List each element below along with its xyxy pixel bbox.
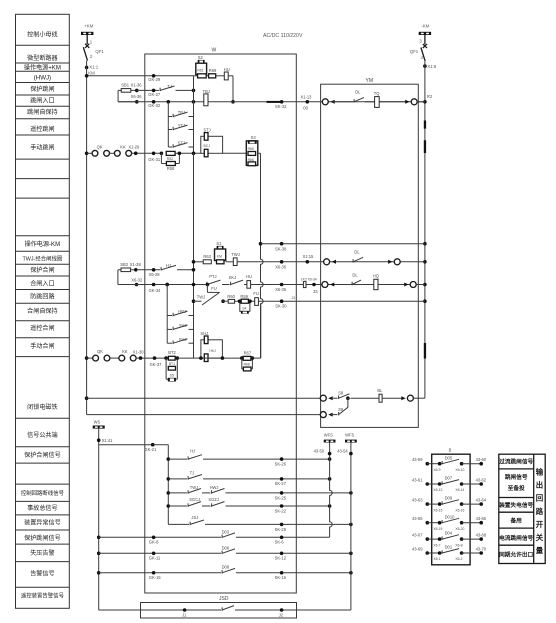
svg-text:X6-8: X6-8 bbox=[455, 543, 462, 547]
svg-text:TWJ: TWJ bbox=[197, 295, 205, 300]
svg-text:X6-35: X6-35 bbox=[275, 287, 287, 292]
svg-text:GK-27: GK-27 bbox=[148, 92, 161, 97]
svg-text:HWJ: HWJ bbox=[210, 485, 219, 490]
svg-text:43-67: 43-67 bbox=[412, 533, 423, 538]
svg-text:X1-38: X1-38 bbox=[130, 262, 142, 267]
resistor R63 bbox=[203, 260, 211, 264]
output contact D07 bbox=[426, 482, 430, 486]
resistor R52/R58 module bbox=[160, 152, 164, 156]
svg-text:YM: YM bbox=[366, 78, 374, 84]
contact HBJ bbox=[167, 315, 172, 317]
resistor R61 module S2 bbox=[198, 60, 205, 64]
svg-text:33: 33 bbox=[313, 289, 318, 294]
svg-text:X1:1: X1:1 bbox=[89, 65, 98, 70]
breaker QF1 pole 3-4 bbox=[423, 44, 427, 48]
svg-text:SB2: SB2 bbox=[120, 262, 128, 267]
svg-text:43-63: 43-63 bbox=[412, 498, 423, 503]
plug circle close r0 left bbox=[324, 259, 330, 265]
svg-text:FU: FU bbox=[253, 291, 259, 296]
svg-text:HQ: HQ bbox=[373, 274, 379, 279]
svg-text:WFS: WFS bbox=[324, 432, 333, 437]
svg-text:S4: S4 bbox=[242, 307, 246, 311]
svg-text:装置失电信号: 装置失电信号 bbox=[498, 501, 533, 509]
svg-text:R69: R69 bbox=[209, 68, 217, 73]
svg-text:SK-22: SK-22 bbox=[275, 509, 287, 514]
wire HU to trip row bbox=[228, 75, 233, 77]
svg-text:X6-20: X6-20 bbox=[455, 527, 464, 531]
wire S3 to close section bus bbox=[258, 152, 261, 154]
svg-text:43-54: 43-54 bbox=[337, 449, 348, 454]
output contact D05 bbox=[426, 462, 430, 466]
svg-text:AC/DC 110/220V: AC/DC 110/220V bbox=[263, 33, 303, 39]
svg-text:D05: D05 bbox=[445, 455, 453, 460]
svg-text:D06: D06 bbox=[222, 545, 230, 550]
svg-text:闭锁电磁铁: 闭锁电磁铁 bbox=[27, 403, 57, 411]
svg-text:GK-15: GK-15 bbox=[149, 575, 162, 580]
signal row D08 bbox=[97, 571, 101, 575]
terminal X1-13 bbox=[306, 100, 310, 104]
svg-text:X1:41: X1:41 bbox=[102, 438, 113, 443]
svg-text:D09: D09 bbox=[445, 496, 453, 501]
svg-text:00: 00 bbox=[303, 106, 308, 111]
svg-text:备用: 备用 bbox=[510, 517, 523, 525]
wire row HWJ (GK-29) bbox=[87, 75, 194, 77]
svg-text:KKJ: KKJ bbox=[229, 275, 237, 280]
svg-text:X1-29: X1-29 bbox=[128, 145, 140, 150]
svg-text:HU: HU bbox=[224, 67, 230, 72]
svg-text:X6-36: X6-36 bbox=[131, 94, 143, 99]
svg-text:JSJ: JSJ bbox=[191, 515, 198, 520]
svg-text:遥控合闸: 遥控合闸 bbox=[30, 324, 54, 332]
svg-text:TBJ: TBJ bbox=[178, 110, 185, 115]
svg-text:R58: R58 bbox=[167, 166, 175, 171]
svg-text:43-66: 43-66 bbox=[476, 516, 487, 521]
svg-text:43-68: 43-68 bbox=[476, 533, 487, 538]
svg-text:BL: BL bbox=[377, 388, 383, 393]
svg-text:SK-29: SK-29 bbox=[275, 527, 287, 532]
contact S9 bbox=[338, 412, 340, 416]
signal row D03 bbox=[97, 536, 101, 540]
svg-text:至备投: 至备投 bbox=[508, 484, 525, 492]
svg-text:R63: R63 bbox=[203, 254, 211, 259]
svg-text:跳闸信号: 跳闸信号 bbox=[505, 473, 528, 481]
svg-text:SB1: SB1 bbox=[121, 83, 129, 88]
svg-text:43-61: 43-61 bbox=[412, 477, 423, 482]
svg-text:操作电源+KM: 操作电源+KM bbox=[24, 63, 61, 71]
svg-text:TWJ: TWJ bbox=[190, 485, 198, 490]
svg-text:BT1: BT1 bbox=[169, 362, 175, 366]
left rail trip aux bbox=[167, 102, 169, 147]
svg-text:BT2: BT2 bbox=[168, 350, 176, 355]
svg-text:WFS: WFS bbox=[345, 432, 354, 437]
svg-text:X6-7: X6-7 bbox=[433, 543, 440, 547]
contact YHJ bbox=[167, 328, 172, 330]
svg-text:GK-8: GK-8 bbox=[149, 540, 159, 545]
svg-text:43-62: 43-62 bbox=[476, 477, 487, 482]
contact JSD bbox=[221, 607, 223, 611]
svg-text:X6-9: X6-9 bbox=[433, 468, 440, 472]
svg-text:SGCJ: SGCJ bbox=[189, 497, 200, 502]
mechanism box YM bbox=[321, 84, 419, 427]
plug circle trip coil right bbox=[405, 100, 409, 104]
svg-text:保护合闸: 保护合闸 bbox=[30, 266, 54, 274]
svg-text:回: 回 bbox=[536, 494, 543, 503]
plug circle close r2 left bbox=[322, 282, 328, 288]
svg-text:43-60: 43-60 bbox=[476, 457, 487, 462]
svg-text:SK-25: SK-25 bbox=[275, 495, 287, 500]
coils SHJ/HKJ box bbox=[201, 340, 223, 358]
svg-text:TJ: TJ bbox=[167, 84, 172, 89]
svg-text:R68: R68 bbox=[244, 363, 250, 367]
svg-text:QF1: QF1 bbox=[410, 49, 419, 54]
svg-text:43-50: 43-50 bbox=[314, 449, 325, 454]
contact HJ close bbox=[137, 269, 161, 271]
svg-text:X6-36: X6-36 bbox=[275, 264, 287, 269]
svg-text:HJ: HJ bbox=[166, 263, 171, 268]
svg-text:S8: S8 bbox=[338, 391, 344, 396]
svg-text:SK-12: SK-12 bbox=[275, 556, 287, 561]
interlock box JSD bbox=[141, 603, 297, 619]
block row 2 wire bbox=[87, 414, 321, 416]
contact TBJ bbox=[168, 116, 172, 118]
svg-text:1K2: 1K2 bbox=[301, 277, 307, 281]
right rail trip bbox=[193, 76, 195, 154]
svg-text:HJ: HJ bbox=[190, 449, 195, 454]
svg-text:W: W bbox=[212, 48, 217, 54]
svg-text:GK-21: GK-21 bbox=[144, 447, 157, 452]
contact KKJ bbox=[230, 282, 232, 286]
left bus KM vertical bbox=[86, 61, 88, 415]
svg-text:GK-32: GK-32 bbox=[148, 103, 161, 108]
svg-text:R59: R59 bbox=[240, 294, 248, 299]
svg-text:D01: D01 bbox=[445, 545, 453, 550]
svg-text:BCJ: BCJ bbox=[204, 144, 211, 148]
svg-text:S2: S2 bbox=[198, 55, 204, 60]
svg-text:STJ: STJ bbox=[178, 141, 185, 146]
svg-text:手动合闸: 手动合闸 bbox=[30, 342, 54, 350]
svg-text:R2: R2 bbox=[427, 94, 433, 99]
svg-text:X6-15: X6-15 bbox=[433, 508, 442, 512]
contact S8 bbox=[338, 396, 340, 400]
svg-text:SGZJ: SGZJ bbox=[208, 497, 218, 502]
contact PTJ bbox=[206, 282, 208, 286]
svg-text:R66: R66 bbox=[248, 158, 254, 162]
svg-text:过流跳闸信号: 过流跳闸信号 bbox=[499, 458, 533, 466]
svg-text:X6-10: X6-10 bbox=[455, 468, 464, 472]
svg-text:X6-1: X6-1 bbox=[433, 557, 440, 561]
contact DL (trip) bbox=[353, 99, 355, 103]
svg-text:R65: R65 bbox=[248, 147, 254, 151]
svg-text:TWJ: TWJ bbox=[231, 252, 239, 257]
svg-text:开: 开 bbox=[536, 520, 544, 529]
block row 1 wire bbox=[85, 396, 89, 400]
svg-text:+KM: +KM bbox=[84, 24, 93, 29]
output contact D01 bbox=[426, 551, 430, 555]
signal common entry GK-21 bbox=[99, 444, 169, 446]
coil TBJ on trip row bbox=[204, 94, 208, 106]
signal contacts TWJ,HWJ row bbox=[168, 492, 187, 494]
svg-text:操作电源-KM: 操作电源-KM bbox=[25, 240, 61, 248]
svg-text:DL: DL bbox=[354, 249, 360, 254]
close KM row (TWJ) bbox=[194, 261, 204, 263]
svg-text:HKJ: HKJ bbox=[209, 349, 216, 353]
svg-text:SHJ: SHJ bbox=[179, 337, 187, 342]
svg-text:J1: J1 bbox=[182, 613, 187, 618]
svg-text:微型断路器: 微型断路器 bbox=[27, 54, 57, 62]
plug circle trip coil left bbox=[322, 99, 328, 105]
vertical link rail bbox=[193, 153, 195, 358]
signal contacts SGCJ,SGZJ row bbox=[168, 505, 187, 507]
contact STJ bbox=[168, 146, 172, 148]
svg-text:告警信号: 告警信号 bbox=[30, 570, 54, 578]
svg-text:X1:15: X1:15 bbox=[303, 254, 314, 259]
svg-text:JSD: JSD bbox=[219, 596, 229, 602]
svg-text:关: 关 bbox=[536, 533, 544, 542]
signal contact TJ row bbox=[168, 478, 187, 480]
svg-text:SK-38: SK-38 bbox=[275, 247, 287, 252]
svg-text:SK-33: SK-33 bbox=[275, 104, 287, 109]
contact TJ bbox=[137, 89, 159, 91]
signal contact JSJ row bbox=[168, 523, 189, 525]
svg-text:量: 量 bbox=[536, 546, 544, 555]
svg-text:GK-37: GK-37 bbox=[150, 362, 163, 367]
resistor R59 with S4 bbox=[241, 299, 248, 303]
svg-text:YHJ: YHJ bbox=[179, 323, 187, 328]
svg-text:HBJ: HBJ bbox=[178, 309, 186, 314]
left legend table bbox=[16, 14, 70, 608]
connector 1K2 bbox=[303, 282, 306, 288]
svg-text:KK: KK bbox=[122, 349, 128, 354]
svg-text:YTJ: YTJ bbox=[178, 123, 185, 128]
relay HU bbox=[216, 75, 225, 77]
fuse FU close bbox=[255, 298, 259, 306]
svg-text:DL: DL bbox=[352, 272, 358, 277]
svg-text:SK-6: SK-6 bbox=[275, 540, 285, 545]
terminal SK-33 bbox=[280, 100, 284, 104]
svg-text:X6-13: X6-13 bbox=[433, 488, 442, 492]
svg-text:控制小母线: 控制小母线 bbox=[27, 30, 57, 38]
svg-text:保护合闸信号: 保护合闸信号 bbox=[24, 451, 61, 459]
svg-text:X6-32: X6-32 bbox=[131, 277, 143, 282]
bus 260 vertical with hops bbox=[261, 153, 264, 358]
svg-text:X1-36: X1-36 bbox=[131, 83, 143, 88]
signal row D06 bbox=[97, 552, 101, 556]
block electromagnet BL bbox=[379, 394, 382, 402]
plug circle block2 left bbox=[320, 412, 326, 418]
svg-text:保护跳闸信号: 保护跳闸信号 bbox=[24, 534, 61, 542]
device box W bbox=[145, 54, 296, 593]
svg-text:同期允许出口: 同期允许出口 bbox=[499, 550, 533, 558]
output contact D010 bbox=[426, 521, 430, 525]
svg-text:电流跳闸信号: 电流跳闸信号 bbox=[499, 534, 533, 542]
svg-text:STJ: STJ bbox=[203, 128, 210, 133]
svg-text:D07: D07 bbox=[445, 476, 453, 481]
svg-text:S5: S5 bbox=[170, 373, 174, 377]
svg-text:J2: J2 bbox=[279, 613, 284, 618]
svg-text:(HWJ): (HWJ) bbox=[34, 75, 51, 82]
svg-text:输: 输 bbox=[536, 468, 544, 477]
svg-text:D04: D04 bbox=[445, 531, 453, 536]
svg-text:SK-16: SK-16 bbox=[275, 575, 287, 580]
resistor R67/R68 module bbox=[240, 356, 244, 360]
manual trip switch plug chain bbox=[85, 152, 89, 156]
svg-text:X6-14: X6-14 bbox=[455, 488, 464, 492]
svg-text:TQ: TQ bbox=[374, 91, 380, 96]
output legend table bbox=[499, 454, 545, 563]
svg-text:X6-34: X6-34 bbox=[308, 277, 317, 281]
svg-text:控制回路断线信号: 控制回路断线信号 bbox=[21, 489, 65, 497]
svg-text:合闸入口: 合闸入口 bbox=[30, 280, 54, 288]
svg-text:R61: R61 bbox=[197, 69, 203, 73]
fuse FU drop bbox=[206, 285, 208, 293]
output contact D09 bbox=[426, 502, 430, 506]
svg-text:X6-2: X6-2 bbox=[455, 557, 462, 561]
svg-text:遥控跳闸: 遥控跳闸 bbox=[30, 125, 54, 133]
svg-text:WS: WS bbox=[94, 420, 101, 425]
trip coil TQ bbox=[365, 101, 375, 103]
svg-text:QK: QK bbox=[97, 144, 103, 149]
plug circle close r2 right bbox=[404, 283, 408, 287]
svg-text:DL: DL bbox=[355, 90, 361, 95]
svg-text:跳闸自保持: 跳闸自保持 bbox=[27, 108, 57, 116]
close coil HQ bbox=[362, 284, 374, 286]
svg-text:路: 路 bbox=[536, 507, 544, 516]
svg-text:HU: HU bbox=[246, 274, 252, 279]
svg-text:防跳回路: 防跳回路 bbox=[30, 293, 54, 301]
svg-text:合闸自保持: 合闸自保持 bbox=[27, 307, 57, 315]
plug circle block1 right bbox=[401, 396, 405, 400]
svg-text:43-59: 43-59 bbox=[412, 457, 423, 462]
svg-text:B: B bbox=[449, 447, 452, 452]
svg-text:失压告警: 失压告警 bbox=[30, 549, 54, 557]
plug circle close r0 right bbox=[388, 260, 392, 264]
svg-text:KM: KM bbox=[88, 70, 95, 75]
contact DL close r0 bbox=[352, 259, 354, 263]
wire SK-38 row bbox=[261, 243, 425, 245]
right bus -KM vertical bbox=[424, 61, 426, 398]
svg-text:S9: S9 bbox=[338, 407, 344, 412]
svg-text:X1-30: X1-30 bbox=[133, 349, 145, 354]
contact YTJ bbox=[168, 129, 172, 131]
svg-text:X1:8: X1:8 bbox=[427, 64, 436, 69]
svg-text:遥控装置告警信号: 遥控装置告警信号 bbox=[21, 592, 65, 600]
terminal X1:8 bbox=[423, 64, 427, 68]
signal contact HJ row bbox=[168, 458, 187, 460]
svg-text:FU: FU bbox=[211, 286, 217, 291]
svg-text:X6-19: X6-19 bbox=[433, 527, 442, 531]
module S1 KM bbox=[217, 246, 224, 249]
svg-text:GK-29: GK-29 bbox=[148, 77, 161, 82]
svg-text:D03: D03 bbox=[222, 529, 230, 534]
svg-text:R67: R67 bbox=[244, 350, 252, 355]
svg-text:QF1: QF1 bbox=[95, 49, 104, 54]
svg-text:跳闸入口: 跳闸入口 bbox=[30, 96, 54, 104]
manual close switch plug chain bbox=[85, 356, 89, 360]
wire trip entry row (GK-32) bbox=[118, 101, 168, 103]
terminal X1:1 bbox=[85, 66, 89, 70]
resistor R60 bbox=[228, 299, 234, 303]
svg-text:KK: KK bbox=[120, 144, 126, 149]
wire manual close row bbox=[177, 357, 242, 359]
svg-text:出: 出 bbox=[536, 481, 543, 490]
svg-text:GK-31: GK-31 bbox=[148, 157, 161, 162]
svg-text:21: 21 bbox=[292, 296, 296, 300]
svg-text:GK-11: GK-11 bbox=[149, 556, 161, 561]
svg-text:QK: QK bbox=[97, 349, 103, 354]
resistor R69 bbox=[209, 74, 216, 78]
svg-text:KM: KM bbox=[217, 254, 222, 258]
svg-text:SK-26: SK-26 bbox=[275, 462, 287, 467]
svg-text:GK-34: GK-34 bbox=[149, 288, 162, 293]
svg-text:X6-28: X6-28 bbox=[149, 272, 161, 277]
output contact D04 bbox=[426, 537, 430, 541]
svg-text:R60: R60 bbox=[227, 294, 235, 299]
wire manual trip row bbox=[175, 152, 201, 154]
svg-text:信号公共端: 信号公共端 bbox=[27, 431, 57, 439]
svg-text:SK-30: SK-30 bbox=[275, 304, 287, 309]
left rail close aux bbox=[165, 283, 169, 287]
svg-text:D010: D010 bbox=[445, 514, 456, 519]
svg-text:SK-27: SK-27 bbox=[275, 481, 287, 486]
svg-text:TJ: TJ bbox=[190, 471, 195, 476]
svg-text:事故总信号: 事故总信号 bbox=[27, 504, 57, 512]
svg-text:X6-16: X6-16 bbox=[455, 508, 464, 512]
contact DL close r2 bbox=[351, 282, 353, 286]
contact SHJ bbox=[167, 342, 172, 344]
svg-text:43-70: 43-70 bbox=[476, 546, 487, 551]
svg-text:43-64: 43-64 bbox=[476, 498, 487, 503]
svg-text:TWJ-经合闸线圈: TWJ-经合闸线圈 bbox=[22, 254, 62, 262]
resistor module S3 (R65/R66) bbox=[248, 140, 257, 144]
close entry row (GK-34) bbox=[118, 284, 206, 286]
svg-text:S1: S1 bbox=[216, 241, 222, 246]
svg-text:D08: D08 bbox=[222, 565, 230, 570]
svg-text:保护跳闸: 保护跳闸 bbox=[30, 85, 54, 93]
svg-text:SHJ: SHJ bbox=[200, 331, 208, 336]
coils STJ/BCJ box bbox=[201, 136, 223, 153]
svg-text:X1-13: X1-13 bbox=[301, 94, 313, 99]
anti-pump row (TWJ contact) bbox=[192, 299, 196, 303]
svg-text:R52: R52 bbox=[167, 157, 173, 161]
svg-text:-KM: -KM bbox=[421, 24, 429, 29]
svg-text:TBJ: TBJ bbox=[203, 89, 210, 94]
plug circle block1 left bbox=[320, 395, 326, 401]
coil TWJ bbox=[226, 261, 234, 263]
svg-text:43-69: 43-69 bbox=[412, 546, 423, 551]
svg-text:43-65: 43-65 bbox=[412, 516, 423, 521]
svg-text:S3: S3 bbox=[251, 135, 257, 140]
svg-text:手动跳闸: 手动跳闸 bbox=[30, 143, 54, 151]
relay HU close bbox=[247, 281, 251, 289]
output contact box B bbox=[432, 454, 470, 565]
breaker QF1 pole 1-2 bbox=[85, 44, 89, 48]
svg-text:PTJ: PTJ bbox=[209, 274, 216, 279]
thick wire mark trip row bbox=[267, 101, 281, 103]
terminal X1:15 bbox=[306, 260, 310, 264]
thick cable marks on -KM bus bbox=[424, 121, 426, 129]
svg-text:装置异常信号: 装置异常信号 bbox=[24, 519, 61, 527]
